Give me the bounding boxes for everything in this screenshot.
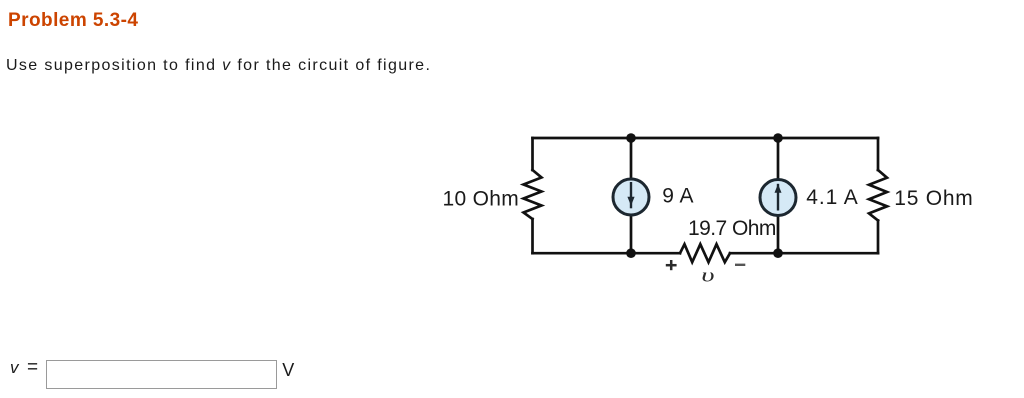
svg-text:υ: υ [701, 265, 714, 286]
wire bottom right of resistor [730, 252, 878, 255]
wire bottom left of resistor [533, 252, 681, 255]
wire source 1 top lead [630, 138, 633, 178]
current source I1 arrow (down) [627, 182, 634, 208]
answer label v = [10, 357, 38, 379]
problem title [8, 10, 138, 32]
plus sign [666, 260, 677, 270]
svg-text:10 Ohm: 10 Ohm [443, 188, 520, 211]
wire source 2 top lead [777, 138, 780, 178]
resistor R1 10 Ohm [524, 170, 542, 219]
current source I1 body [613, 179, 649, 215]
problem statement [6, 57, 431, 75]
current source I2 arrow (up) [775, 184, 782, 211]
node dot top right [773, 133, 783, 143]
current source I2 body [760, 180, 796, 216]
resistor R4 15 Ohm [869, 170, 887, 221]
wire source 2 bottom lead [777, 217, 780, 253]
wire right branch lower [877, 221, 880, 254]
node dot bottom right [773, 248, 783, 258]
svg-text:15 Ohm: 15 Ohm [894, 187, 973, 210]
svg-text:4.1 A: 4.1 A [806, 186, 858, 209]
resistor R3 19.7 Ohm [680, 244, 730, 262]
wire top [533, 137, 879, 140]
minus sign [735, 264, 745, 266]
answer unit V [282, 360, 294, 381]
wire left branch upper [531, 138, 534, 170]
svg-text:19.7 Ohm: 19.7 Ohm [688, 217, 776, 240]
answer input box [46, 360, 277, 389]
node dot top left [626, 133, 636, 143]
svg-text:9 A: 9 A [662, 185, 694, 208]
wire source 1 bottom lead [630, 217, 633, 254]
wire right branch upper [877, 138, 880, 170]
wire left branch lower [531, 219, 534, 253]
node dot bottom left [626, 248, 636, 258]
